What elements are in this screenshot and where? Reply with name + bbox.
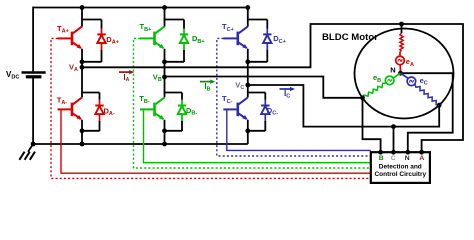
svg-text:Control Circuitry: Control Circuitry [374, 171, 426, 178]
svg-text:Detection and: Detection and [379, 163, 422, 170]
svg-text:A: A [419, 155, 424, 162]
svg-text:N: N [405, 155, 410, 162]
svg-text:C: C [391, 155, 396, 162]
svg-text:B: B [379, 155, 384, 162]
svg-text:N: N [390, 65, 395, 74]
svg-text:BLDC Motor: BLDC Motor [322, 32, 378, 43]
